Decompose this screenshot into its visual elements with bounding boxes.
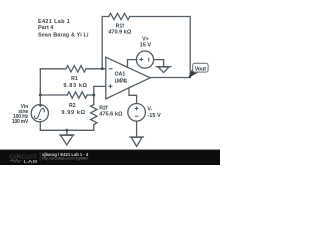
svg-text:LM741: LM741 (115, 79, 128, 85)
svg-text:http://circuitlab.com/c/hgh6km: http://circuitlab.com/c/hgh6km (42, 156, 88, 160)
svg-text:Part 4: Part 4 (38, 25, 53, 31)
svg-text:Sean Barag & Yi Li: Sean Barag & Yi Li (38, 33, 89, 39)
svg-text:R2: R2 (69, 103, 76, 109)
svg-text:V-: V- (147, 106, 152, 112)
svg-text:470.9 kΩ: 470.9 kΩ (108, 30, 132, 36)
svg-text:9.99 kΩ: 9.99 kΩ (61, 110, 85, 116)
svg-text:15 V: 15 V (140, 42, 152, 48)
svg-text:E421 Lab 1: E421 Lab 1 (38, 19, 70, 25)
svg-text:9.83 kΩ: 9.83 kΩ (63, 83, 87, 89)
svg-text:-15 V: -15 V (147, 113, 161, 119)
svg-text:Vout: Vout (195, 66, 207, 72)
svg-text:R1: R1 (71, 76, 78, 82)
svg-text:475.6 kΩ: 475.6 kΩ (99, 112, 123, 118)
svg-text:OA1: OA1 (115, 72, 126, 78)
svg-text:100 mV: 100 mV (12, 119, 29, 125)
svg-text:LAB: LAB (24, 159, 39, 164)
